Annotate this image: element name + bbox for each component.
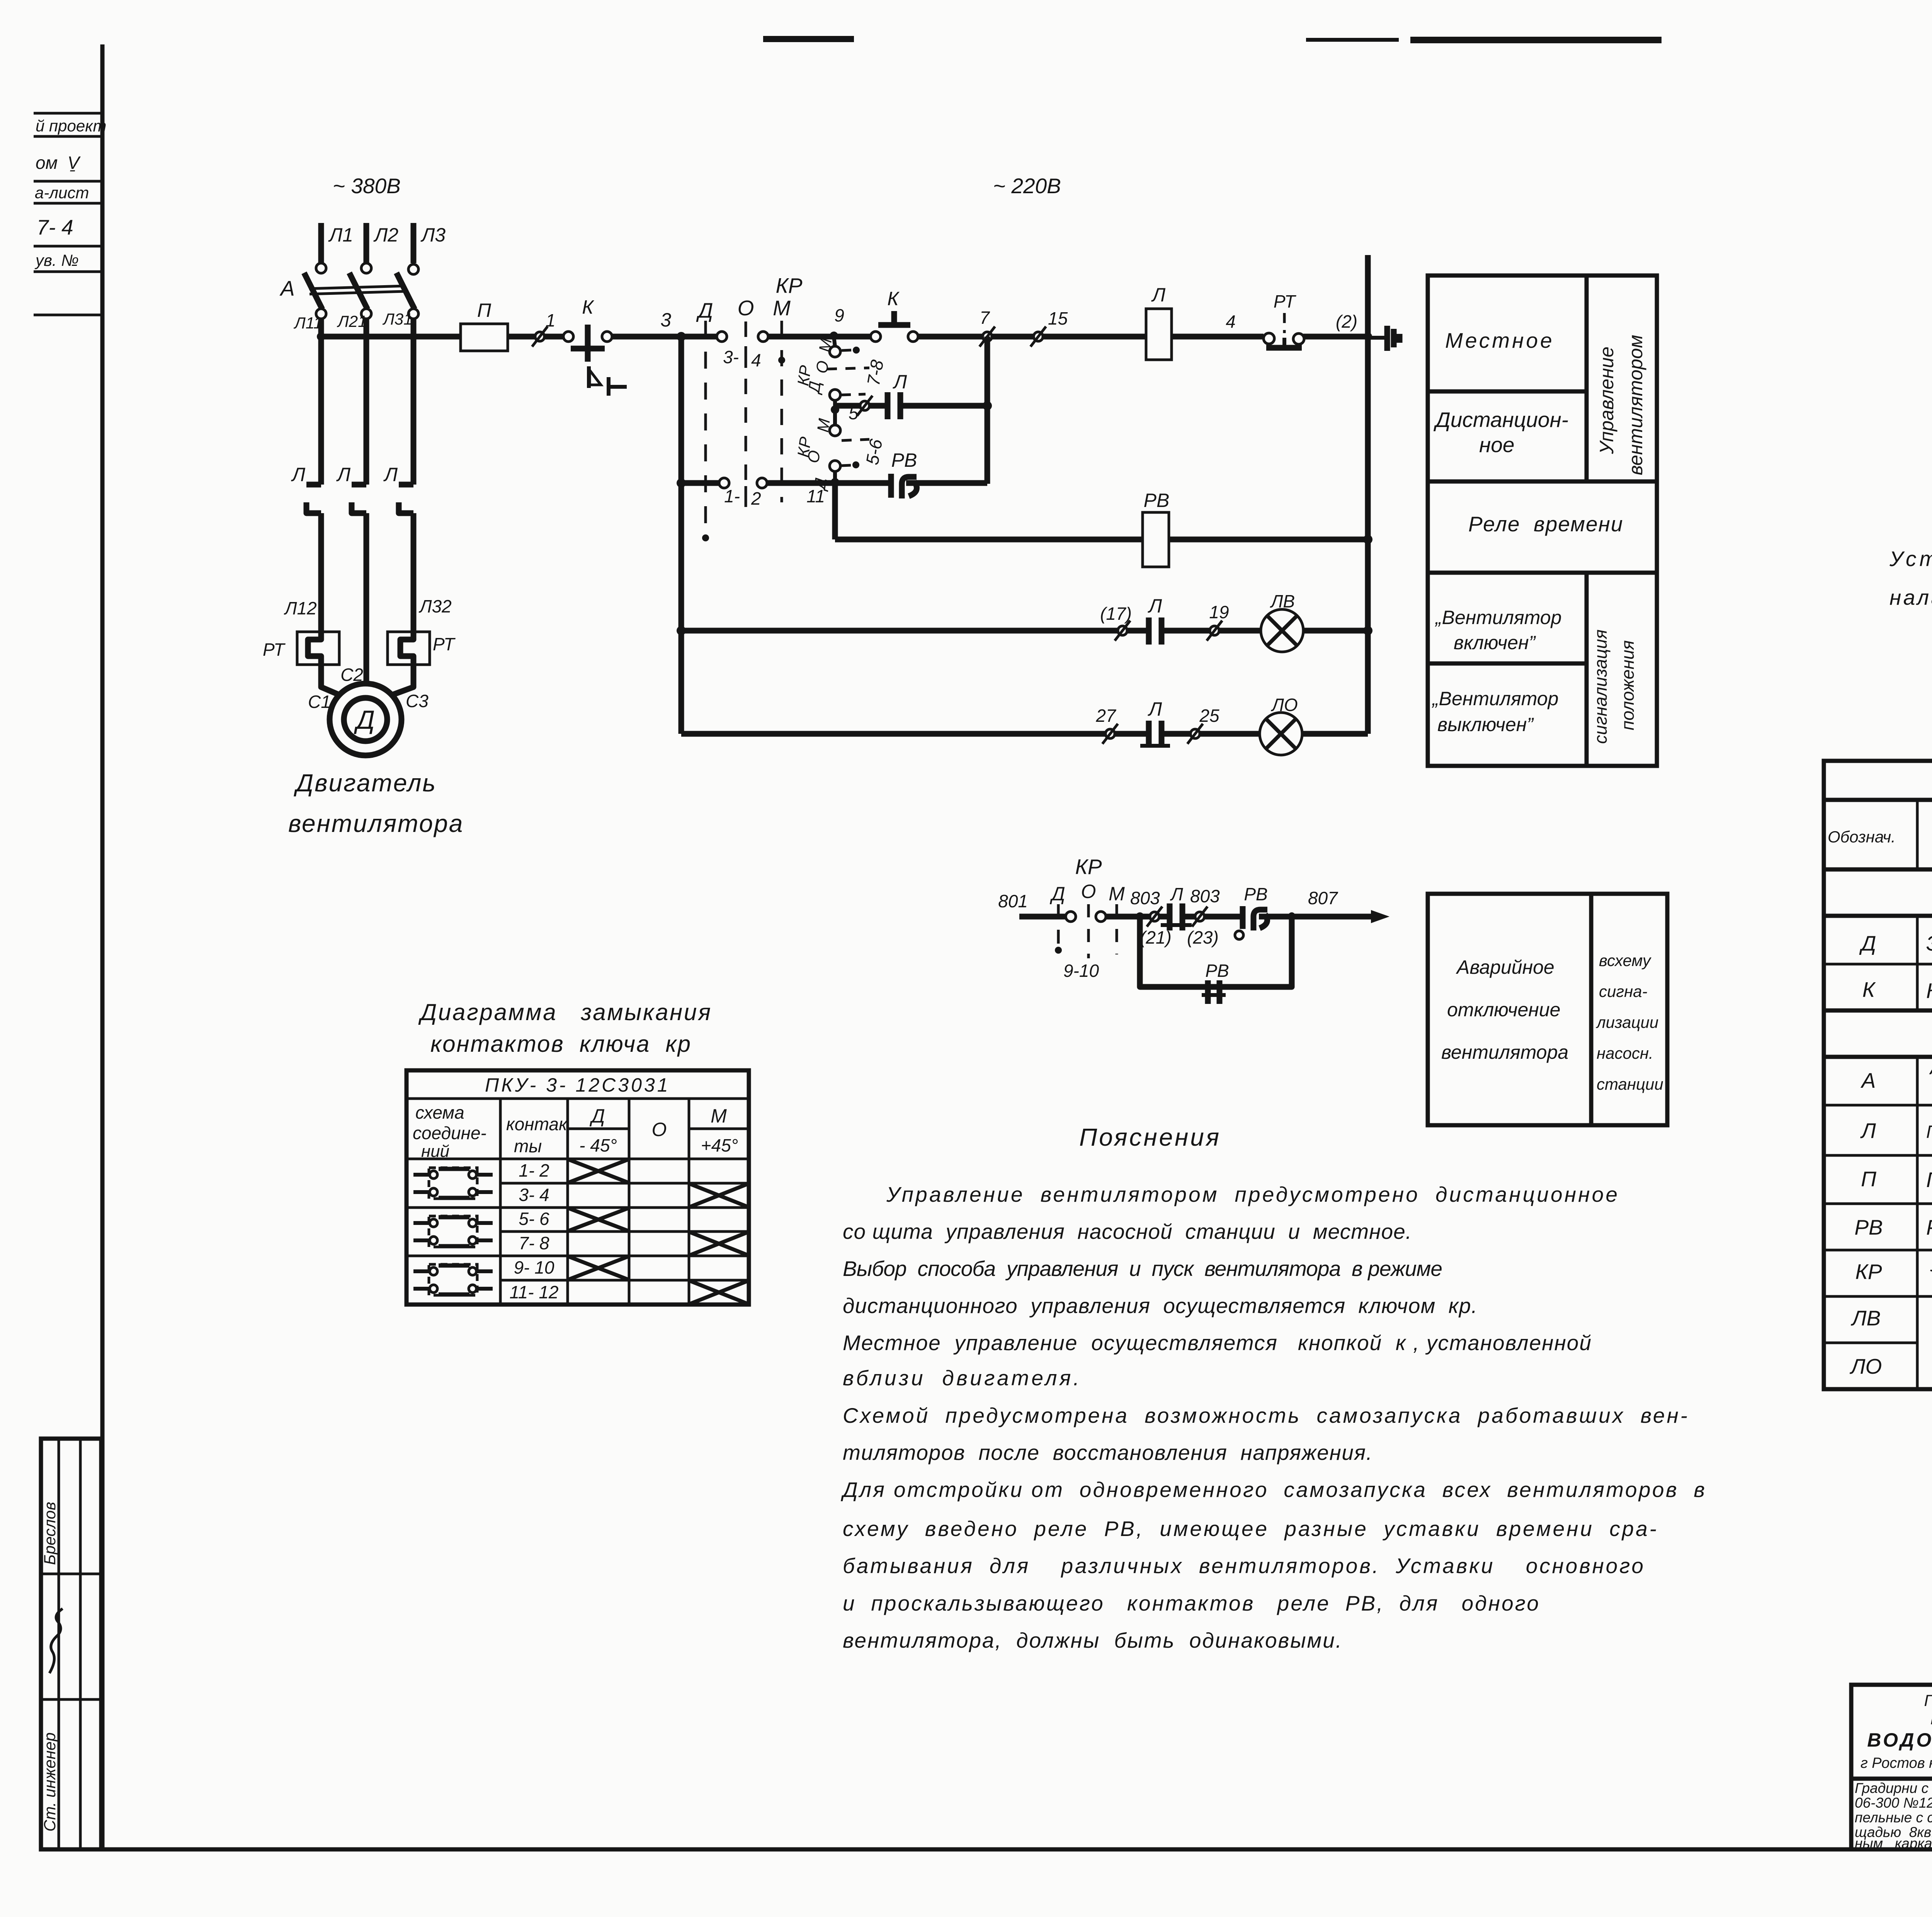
wire to node 7 bbox=[918, 334, 1146, 340]
svg-text:А: А bbox=[1861, 1068, 1876, 1092]
diagram table box bbox=[406, 1070, 749, 1305]
svg-text:ЛО: ЛО bbox=[1270, 695, 1298, 715]
svg-text:Л: Л bbox=[291, 464, 306, 485]
svg-text:Л31: Л31 bbox=[382, 310, 413, 328]
svg-text:сигна-: сигна- bbox=[1599, 982, 1648, 1000]
equipment table horizontal lines bbox=[1824, 798, 1932, 802]
emergency legend box bbox=[1428, 894, 1667, 1125]
breaker A blade 1 bbox=[304, 273, 322, 309]
contactor Л main contact 2 bbox=[352, 485, 366, 513]
svg-text:ным каркасом.: ным каркасом. bbox=[1855, 1835, 1932, 1851]
svg-text:(2): (2) bbox=[1336, 311, 1357, 332]
svg-text:пельные с секциями пло-: пельные с секциями пло- bbox=[1855, 1810, 1932, 1825]
svg-text:вентилятором: вентилятором bbox=[1625, 335, 1646, 475]
breaker A pole 1 terminal bbox=[316, 263, 326, 273]
button К local bbox=[571, 296, 627, 396]
КР dashed column М bbox=[781, 321, 783, 502]
frame bottom border bbox=[40, 1847, 1932, 1852]
wire Л to РВ bbox=[1182, 914, 1241, 920]
svg-text:06-300 №12,5 пленочные и ка-: 06-300 №12,5 пленочные и ка- bbox=[1855, 1795, 1932, 1811]
contact РВ slip on row bbox=[891, 449, 917, 498]
svg-text:РВ: РВ bbox=[1854, 1215, 1883, 1239]
svg-text:РВ: РВ bbox=[1244, 884, 1267, 904]
svg-text:РТ: РТ bbox=[263, 640, 286, 660]
legend row line 4 bbox=[1428, 662, 1587, 666]
button К remote bbox=[871, 288, 918, 342]
svg-text:Л: Л bbox=[893, 371, 907, 393]
svg-text:Л11: Л11 bbox=[293, 314, 322, 332]
КР column М dot bbox=[778, 357, 785, 364]
svg-text:Пускатель магнитный: Пускатель магнитный bbox=[1926, 1122, 1932, 1142]
svg-text:Пояснения: Пояснения bbox=[1079, 1123, 1219, 1151]
button К terminal left bbox=[563, 332, 573, 342]
svg-text:П: П bbox=[1861, 1167, 1876, 1191]
svg-text:ты: ты bbox=[514, 1136, 542, 1156]
svg-text:Л: Л bbox=[1170, 884, 1183, 904]
svg-text:(23): (23) bbox=[1187, 927, 1219, 947]
svg-text:Ростовский: Ростовский bbox=[1930, 1709, 1932, 1728]
svg-text:вентилятора: вентилятора bbox=[288, 810, 464, 837]
svg-text:ВОДОКАНАЛПРОЕКТ: ВОДОКАНАЛПРОЕКТ bbox=[1867, 1729, 1932, 1751]
svg-text:РВ: РВ bbox=[1144, 490, 1170, 511]
svg-text:Уставка реле времени „ 1÷3-Р: Уставка реле времени „ 1÷3-РВ” уточняетс… bbox=[1889, 547, 1932, 571]
svg-text:3: 3 bbox=[660, 309, 671, 331]
button К terminal right bbox=[602, 332, 612, 342]
svg-text:11- 12: 11- 12 bbox=[509, 1282, 558, 1302]
svg-text:К: К bbox=[887, 288, 900, 310]
svg-text:включен”: включен” bbox=[1454, 632, 1536, 653]
svg-text:ний: ний bbox=[421, 1142, 449, 1161]
КР column Д end dot bbox=[702, 534, 709, 541]
svg-text:7- 4: 7- 4 bbox=[37, 215, 73, 239]
wire РТ to bus bbox=[1303, 334, 1368, 340]
svg-text:9: 9 bbox=[834, 305, 844, 325]
svg-text:Л: Л bbox=[383, 464, 398, 485]
equipment table outer box bbox=[1824, 761, 1932, 1389]
svg-text:„Вентилятор: „Вентилятор bbox=[1435, 607, 1561, 628]
svg-text:станции: станции bbox=[1597, 1075, 1663, 1093]
svg-text:~ 380В: ~ 380В bbox=[333, 174, 401, 198]
legend row line 2 bbox=[1428, 480, 1657, 484]
wire L3 top stub bbox=[411, 223, 417, 263]
svg-text:РТ: РТ bbox=[1274, 291, 1296, 311]
svg-text:РТ: РТ bbox=[433, 634, 456, 654]
svg-text:М: М bbox=[813, 417, 833, 433]
svg-text:7: 7 bbox=[980, 308, 990, 328]
svg-text:а-лист: а-лист bbox=[35, 184, 89, 202]
wire ЛВ row left bbox=[681, 628, 1149, 634]
contact РВ bypass bbox=[1202, 961, 1229, 1004]
node 11 vertical drop bbox=[832, 483, 838, 539]
svg-text:803: 803 bbox=[1190, 886, 1220, 906]
svg-text:Д: Д bbox=[1859, 931, 1876, 955]
svg-text:4: 4 bbox=[751, 350, 761, 370]
thermal contact РТ bbox=[1264, 291, 1304, 348]
wire L2 top stub bbox=[364, 223, 369, 263]
svg-text:Схемой предусмотрена возможн: Схемой предусмотрена возможность самозап… bbox=[843, 1403, 1687, 1427]
wire РВ coil to bus bbox=[1169, 537, 1368, 543]
svg-text:Местное: Местное bbox=[1445, 328, 1554, 352]
svg-text:Управление: Управление bbox=[1596, 347, 1617, 454]
node 15 slash bbox=[1031, 308, 1068, 347]
title block outer box bbox=[1851, 1685, 1932, 1849]
svg-text:803: 803 bbox=[1130, 888, 1160, 908]
right bus vertical bbox=[1365, 255, 1371, 734]
contact Л emergency bbox=[1161, 884, 1192, 930]
wire РВ row right bbox=[906, 480, 987, 486]
diagram row lines bbox=[500, 1182, 749, 1185]
svg-text:ное: ное bbox=[1479, 433, 1514, 457]
svg-text:положения: положения bbox=[1617, 640, 1638, 730]
node slash on self-hold bbox=[857, 396, 872, 416]
signature stamp box bbox=[41, 1439, 101, 1849]
svg-text:О: О bbox=[804, 449, 823, 464]
svg-text:Л1: Л1 bbox=[328, 224, 353, 246]
svg-text:соедине-: соедине- bbox=[413, 1123, 486, 1143]
svg-text:РВ: РВ bbox=[891, 449, 917, 471]
svg-text:КР: КР bbox=[1855, 1260, 1882, 1284]
svg-text:г Ростов н/Д 1975г: г Ростов н/Д 1975г bbox=[1861, 1755, 1932, 1771]
pictogram 3 bbox=[413, 1264, 493, 1295]
svg-text:Д: Д bbox=[1049, 883, 1065, 905]
wire leg2 contact to motor bbox=[364, 513, 369, 684]
svg-text:С3: С3 bbox=[406, 691, 429, 711]
svg-text:наладке в зависимости от в: наладке в зависимости от времени запуска… bbox=[1889, 585, 1932, 609]
contact Л self-hold bbox=[888, 371, 907, 419]
contact Л signal ЛО (NC) bbox=[1140, 698, 1170, 748]
svg-text:Л: Л bbox=[1148, 698, 1162, 720]
motor Д bbox=[330, 684, 401, 755]
svg-text:П: П bbox=[477, 299, 492, 321]
variant contact 9-10 bbox=[810, 461, 859, 492]
pictogram 1 bbox=[413, 1168, 493, 1199]
svg-text:5- 6: 5- 6 bbox=[519, 1209, 549, 1229]
КР contact 3-4 terminal right bbox=[758, 332, 768, 342]
КР em dashed М bbox=[1116, 904, 1118, 954]
node slash 21 bbox=[1140, 907, 1172, 947]
svg-text:С1: С1 bbox=[308, 692, 331, 712]
contactor Л main contact 3 bbox=[399, 485, 413, 513]
wire L1 top stub bbox=[318, 223, 324, 263]
node 11 junction bbox=[831, 478, 839, 486]
wire leg3 into motor bbox=[391, 663, 413, 695]
bus junction ЛВ row bbox=[1363, 626, 1372, 635]
ground symbol bbox=[1371, 326, 1400, 351]
self-hold row wire right bbox=[900, 403, 987, 409]
wire РВ row middle bbox=[767, 480, 889, 486]
svg-text:Дистанцион-: Дистанцион- bbox=[1433, 408, 1568, 432]
frame left border bbox=[100, 44, 105, 1849]
svg-text:й проект: й проект bbox=[36, 117, 107, 135]
svg-text:ув. №: ув. № bbox=[34, 251, 79, 269]
svg-text:М: М bbox=[1109, 883, 1125, 905]
svg-text:801: 801 bbox=[998, 891, 1028, 911]
svg-text:отключение: отключение bbox=[1447, 999, 1560, 1021]
title block left column divider bbox=[1851, 1777, 1932, 1781]
svg-text:~ 220В: ~ 220В bbox=[993, 174, 1061, 198]
svg-text:9- 10: 9- 10 bbox=[514, 1257, 554, 1277]
variant contact 5-6 stack bbox=[794, 380, 886, 466]
breaker A pole 2 terminal bbox=[361, 263, 371, 273]
svg-text:Госстрой СССР: Госстрой СССР bbox=[1924, 1691, 1932, 1709]
self-hold row wire left bbox=[835, 403, 886, 409]
svg-text:РВ: РВ bbox=[1205, 961, 1229, 981]
svg-text:К: К bbox=[582, 296, 594, 318]
node 803 junction bbox=[1136, 912, 1144, 921]
svg-text:контак: контак bbox=[506, 1114, 568, 1134]
svg-text:О: О bbox=[1081, 881, 1096, 902]
wire ЛО row right bbox=[1302, 731, 1368, 737]
svg-text:3- 4: 3- 4 bbox=[519, 1185, 549, 1205]
top edge scan dash 2 bbox=[1410, 37, 1662, 43]
fuse П bbox=[461, 324, 508, 351]
coil РВ bbox=[1143, 490, 1169, 567]
wire 807 segment bbox=[1259, 914, 1372, 920]
wire 801 start bbox=[1019, 914, 1066, 920]
lamp ЛО bbox=[1260, 695, 1302, 755]
wire leg3 contact to heater bbox=[411, 513, 417, 634]
junction dot ЛВ row at left bus bbox=[677, 626, 686, 635]
node 19 slash bbox=[1207, 602, 1229, 641]
svg-text:Местное управление осуществл: Местное управление осуществляется кнопко… bbox=[843, 1331, 1591, 1355]
svg-text:лизации: лизации bbox=[1595, 1013, 1658, 1031]
thermal heater РТ right bbox=[388, 632, 456, 665]
svg-text:Кнопка управления: Кнопка управления bbox=[1926, 979, 1932, 1003]
bypass branch with РВ contact bbox=[1140, 917, 1292, 987]
lamp ЛВ bbox=[1261, 591, 1303, 652]
wire ЛВ row right bbox=[1303, 628, 1368, 634]
bus junction РВ row bbox=[1363, 535, 1372, 544]
svg-text:Л12: Л12 bbox=[284, 598, 317, 618]
svg-text:7- 8: 7- 8 bbox=[519, 1233, 549, 1253]
svg-text:Выбор способа управления и: Выбор способа управления и пуск вентилят… bbox=[843, 1257, 1442, 1281]
svg-text:насосн.: насосн. bbox=[1597, 1044, 1653, 1062]
svg-text:11: 11 bbox=[806, 486, 825, 506]
diagram X marks (Д column) bbox=[569, 1160, 628, 1279]
svg-text:со щита управления насосной: со щита управления насосной станции и ме… bbox=[843, 1220, 1412, 1243]
wire 803 segment bbox=[1106, 914, 1170, 920]
svg-text:батывания для различных в: батывания для различных вентиляторов. Ус… bbox=[843, 1554, 1643, 1578]
legend row line 1 bbox=[1428, 390, 1587, 394]
breaker A pole 3 terminal bbox=[408, 264, 418, 274]
svg-text:дистанционного управления ос: дистанционного управления осуществляется… bbox=[843, 1294, 1477, 1318]
contact РВ slip emergency bbox=[1235, 884, 1268, 939]
node 27 slash bbox=[1095, 706, 1118, 744]
top edge scan dash 1 bbox=[763, 36, 854, 42]
svg-text:КР: КР bbox=[1075, 855, 1102, 879]
КР dashed column О bbox=[745, 321, 747, 506]
КР em dashed Д bbox=[1057, 904, 1060, 946]
svg-text:Л21: Л21 bbox=[337, 312, 367, 330]
breaker A blade 3 bbox=[396, 273, 415, 309]
svg-text:1- 2: 1- 2 bbox=[519, 1160, 549, 1180]
svg-text:схема: схема bbox=[415, 1102, 464, 1123]
svg-text:Л: Л bbox=[1148, 595, 1162, 617]
node (17) slash bbox=[1100, 604, 1132, 641]
margin stamp lines bbox=[34, 112, 101, 115]
wire coil to РТ bbox=[1172, 334, 1264, 340]
thermal heater РТ left bbox=[263, 632, 339, 665]
КР em contact terminal left bbox=[1066, 912, 1076, 922]
breaker A lower terminal 3 bbox=[408, 309, 418, 319]
wire ЛО row left bbox=[681, 731, 1149, 737]
КР contact 3-4 terminal left bbox=[717, 332, 727, 342]
svg-text:Л2: Л2 bbox=[373, 224, 398, 246]
svg-text:КР: КР bbox=[776, 274, 802, 298]
svg-text:ЛВ: ЛВ bbox=[1270, 591, 1295, 611]
wire РВ row left bbox=[681, 480, 719, 486]
svg-text:ПКУ- 3- 12С3031: ПКУ- 3- 12С3031 bbox=[485, 1074, 670, 1096]
node 3 junction bbox=[677, 332, 686, 341]
wire row1 to К remote bbox=[768, 334, 871, 340]
contactor Л main contact 1 bbox=[306, 485, 321, 513]
node 7 vertical drop bbox=[985, 337, 990, 484]
wire main tap row bbox=[321, 334, 540, 340]
svg-text:27: 27 bbox=[1095, 706, 1116, 726]
diagram sub-header lines for Д and М bbox=[568, 1128, 629, 1130]
legend inner column line rows 4-5 bbox=[1585, 573, 1589, 766]
svg-text:ЛВ: ЛВ bbox=[1851, 1306, 1881, 1330]
wire leg3 breaker to contact bbox=[411, 318, 417, 485]
svg-text:Л: Л bbox=[336, 464, 351, 485]
svg-text:1-: 1- bbox=[724, 486, 740, 506]
svg-text:Электродвигатель: Электродвигатель bbox=[1926, 931, 1932, 955]
svg-text:Л: Л bbox=[1860, 1119, 1876, 1143]
svg-text:19: 19 bbox=[1209, 602, 1229, 622]
svg-text:схему введено реле РВ, име: схему введено реле РВ, имеющее разные ус… bbox=[843, 1517, 1656, 1541]
svg-text:всхему: всхему bbox=[1599, 951, 1652, 970]
breaker A lower terminal 1 bbox=[316, 309, 326, 319]
svg-text:Л3: Л3 bbox=[420, 224, 446, 246]
node 25 slash bbox=[1187, 706, 1219, 744]
svg-text:Д: Д bbox=[354, 705, 375, 735]
diagram header row bottom bbox=[406, 1158, 749, 1160]
svg-text:М: М bbox=[711, 1105, 727, 1127]
node 807 bbox=[1288, 912, 1295, 919]
svg-text:выключен”: выключен” bbox=[1437, 714, 1534, 735]
signature squiggle bbox=[49, 1609, 63, 1673]
КР em dashed О bbox=[1087, 904, 1090, 958]
svg-text:О: О bbox=[652, 1119, 667, 1140]
svg-text:25: 25 bbox=[1199, 706, 1219, 726]
svg-text:вентилятора: вентилятора bbox=[1441, 1041, 1568, 1063]
svg-text:К: К bbox=[1862, 978, 1876, 1002]
svg-text:О: О bbox=[738, 296, 754, 320]
КР contact 1-2 terminal right bbox=[757, 478, 767, 488]
legend row line 3 bbox=[1428, 571, 1657, 575]
svg-text:Бреслов: Бреслов bbox=[41, 1502, 59, 1565]
contact Л signal ЛВ bbox=[1148, 595, 1162, 645]
svg-text:(17): (17) bbox=[1100, 604, 1132, 624]
svg-text:сигнализация: сигнализация bbox=[1590, 629, 1611, 744]
svg-text:„Вентилятор: „Вентилятор bbox=[1432, 688, 1558, 709]
wire to button К bbox=[543, 334, 563, 340]
КР column О tick row2 bbox=[745, 486, 747, 507]
wire ЛО row middle bbox=[1162, 731, 1260, 737]
wire leg2 breaker to contact bbox=[364, 318, 369, 485]
node slash 803b bbox=[1187, 886, 1220, 947]
svg-text:Реле времени: Реле времени bbox=[1468, 512, 1623, 536]
svg-text:Универсальный: Универсальный bbox=[1930, 1254, 1932, 1276]
svg-text:Реле времени: Реле времени bbox=[1926, 1215, 1932, 1239]
diagram connection pictograms bbox=[413, 1168, 493, 1295]
svg-text:9-10: 9-10 bbox=[1063, 961, 1099, 981]
junction dot self-hold to node7 drop bbox=[983, 401, 992, 410]
КР dashed column Д bbox=[704, 321, 707, 533]
top edge scan dash 2a bbox=[1306, 38, 1399, 42]
КР column О tick row1 bbox=[745, 346, 747, 368]
coil Л bbox=[1146, 284, 1172, 360]
arrow out bbox=[1371, 910, 1389, 923]
svg-text:Градирни с вентиляторами: Градирни с вентиляторами bbox=[1855, 1780, 1932, 1796]
КР contact 1-2 terminal left bbox=[719, 478, 729, 488]
breaker A blade 2 bbox=[349, 273, 367, 309]
variant contact 7-8 bbox=[794, 337, 887, 387]
svg-text:тиляторов после восстановлен: тиляторов после восстановления напряжени… bbox=[843, 1441, 1372, 1465]
svg-text:Д: Д bbox=[589, 1105, 605, 1127]
wire leg1 into motor bbox=[321, 663, 340, 695]
svg-text:Д: Д bbox=[696, 298, 713, 322]
svg-text:Обознач.: Обознач. bbox=[1828, 828, 1896, 846]
breaker A tie bar bbox=[309, 286, 405, 289]
svg-text:1: 1 bbox=[546, 310, 556, 330]
svg-text:Двигатель: Двигатель bbox=[294, 769, 437, 797]
diagram X marks (М column) bbox=[690, 1184, 748, 1304]
node 1 slash bbox=[532, 310, 556, 347]
svg-text:Л: Л bbox=[1151, 284, 1166, 306]
wire to node 3 bbox=[612, 334, 717, 340]
diagram verticals bbox=[499, 1099, 502, 1305]
svg-text:Ст. инженер: Ст. инженер bbox=[41, 1732, 59, 1832]
wire ЛВ row middle bbox=[1162, 628, 1261, 634]
svg-text:3-: 3- bbox=[723, 347, 739, 367]
legend inner column line rows 1-2 bbox=[1585, 276, 1589, 481]
svg-text:Аварийное: Аварийное bbox=[1456, 956, 1554, 978]
node 9 junction bbox=[830, 332, 838, 340]
svg-text:2: 2 bbox=[751, 488, 761, 509]
svg-text:ЛО: ЛО bbox=[1850, 1354, 1882, 1378]
junction dot РВ row at bus bbox=[677, 478, 686, 488]
svg-text:4: 4 bbox=[1226, 311, 1236, 332]
КР em contact terminal right bbox=[1096, 912, 1106, 922]
svg-text:807: 807 bbox=[1308, 888, 1338, 908]
equipment table vertical lines bbox=[1917, 800, 1932, 1389]
svg-text:А: А bbox=[279, 276, 295, 300]
svg-text:- 45°: - 45° bbox=[579, 1135, 617, 1155]
svg-text:Предохранитель: Предохранитель bbox=[1926, 1168, 1932, 1192]
svg-text:+45°: +45° bbox=[701, 1135, 738, 1155]
svg-text:ом V̱: ом V̱ bbox=[36, 153, 81, 173]
breaker A lower terminal 2 bbox=[361, 309, 371, 319]
svg-text:15: 15 bbox=[1048, 308, 1068, 328]
КР em Д dot bbox=[1055, 947, 1062, 954]
bus junction at ground bbox=[1364, 332, 1372, 341]
junction dot on leg1 bbox=[317, 332, 325, 341]
wire leg1 contact to heater bbox=[318, 513, 324, 634]
node 7 slash bbox=[980, 308, 995, 347]
left bus vertical bbox=[679, 337, 684, 734]
legend box outer bbox=[1428, 276, 1657, 766]
wire РВ coil row bbox=[835, 537, 1143, 543]
svg-text:М: М bbox=[773, 296, 791, 320]
wire leg1 breaker to contact bbox=[318, 318, 324, 485]
svg-text:вентилятора, должны быть од: вентилятора, должны быть одинаковыми. bbox=[843, 1628, 1342, 1652]
pictogram 2 bbox=[413, 1216, 493, 1247]
svg-text:Л32: Л32 bbox=[418, 596, 452, 616]
